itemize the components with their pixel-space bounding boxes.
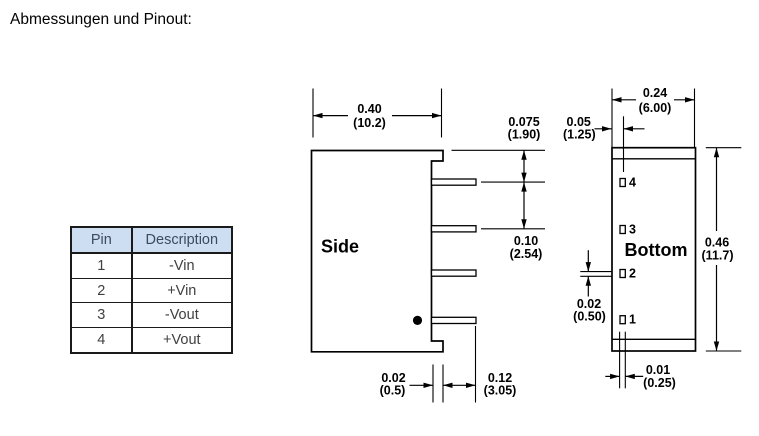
- dimension 0.05 (1.25) edge to pin: [563, 115, 645, 172]
- svg-text:3: 3: [629, 223, 636, 237]
- svg-text:(0.50): (0.50): [573, 310, 606, 324]
- svg-text:(10.2): (10.2): [353, 116, 386, 130]
- pin 4 pad (bottom view): [620, 179, 625, 187]
- svg-text:(1.90): (1.90): [508, 128, 541, 142]
- pin 2 pad (bottom view): [620, 270, 625, 278]
- pinout table: [70, 226, 233, 353]
- svg-text:(6.00): (6.00): [639, 101, 672, 115]
- svg-text:4: 4: [629, 176, 636, 190]
- svg-text:(2.54): (2.54): [510, 247, 543, 261]
- pin 1 indicator dot: [413, 316, 422, 325]
- side view body outline: [312, 151, 444, 352]
- svg-text:Bottom: Bottom: [625, 240, 688, 260]
- svg-text:(1.25): (1.25): [563, 128, 596, 142]
- dimension 0.02 (0.5) standoff: [380, 365, 443, 403]
- svg-text:0.10: 0.10: [514, 234, 538, 248]
- dimension 0.12 (3.05) pin length: [443, 326, 516, 403]
- dimension 0.24 (6.00) body width bottom view: [612, 86, 695, 148]
- dimension 0.01 (0.25) pad thickness: [605, 332, 676, 390]
- svg-text:0.40: 0.40: [357, 102, 381, 116]
- dimension 0.075 (1.90) top to first pin: [452, 115, 546, 182]
- pin 2 (side view): [432, 226, 477, 232]
- pin 4 (side view, bottom): [432, 317, 477, 323]
- dimension 0.02 (0.50) pad width: [573, 250, 612, 323]
- pin 1 pad (bottom view): [620, 316, 625, 324]
- dimension 0.40 (10.2) body width: [313, 89, 442, 138]
- svg-text:0.24: 0.24: [643, 86, 667, 100]
- svg-text:2: 2: [629, 267, 636, 281]
- bottom view body outline: [612, 148, 696, 351]
- pin 3 pad (bottom view): [620, 226, 625, 234]
- dimension 0.10 (2.54) pin pitch: [481, 182, 545, 261]
- svg-text:(0.25): (0.25): [643, 376, 676, 390]
- svg-text:0.46: 0.46: [705, 235, 729, 249]
- svg-text:(0.5): (0.5): [380, 384, 406, 398]
- svg-text:(11.7): (11.7): [702, 248, 734, 262]
- dimension 0.46 (11.7) body length: [702, 148, 742, 351]
- svg-text:Side: Side: [321, 237, 359, 257]
- svg-text:1: 1: [629, 313, 636, 327]
- title text: [10, 11, 192, 29]
- pin 1 (side view, top): [432, 179, 477, 185]
- pin 3 (side view): [432, 270, 477, 276]
- svg-text:(3.05): (3.05): [484, 384, 517, 398]
- svg-text:0.01: 0.01: [646, 363, 670, 377]
